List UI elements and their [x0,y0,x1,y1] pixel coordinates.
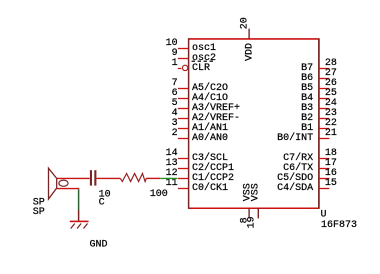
svg-text:21: 21 [325,128,337,139]
svg-text:100: 100 [150,189,168,200]
svg-text:19: 19 [247,216,258,228]
svg-text:VSS: VSS [250,183,261,201]
pin 17 (C6/TX) [283,158,337,174]
pin 24 (B3) [301,98,337,114]
wire resistor right [146,177,160,179]
pin 14 (C3/SCL) [166,148,228,164]
pin 19 (VSS) [247,183,262,228]
pin 22 (B1) [301,118,337,134]
IC U 16F873 body [189,38,319,209]
ground [70,210,89,229]
svg-text:GND: GND [90,240,108,251]
pin 20 (VDD) [239,17,255,61]
svg-text:11: 11 [166,178,178,189]
pin 5 (A3/VREF+) [172,98,240,114]
svg-text:C0/CK1: C0/CK1 [192,182,228,194]
pin 10 (osc1) [166,38,216,54]
pin 13 (C2/CCP1) [166,158,234,174]
pin 9 (osc2) [172,48,216,64]
pin 2 (A0/AN0) [172,128,228,144]
capacitor C 10 [90,170,97,185]
pin 3 (A1/AN1) [172,118,228,134]
pin 23 (B2) [301,108,337,124]
svg-text:C: C [99,197,105,208]
svg-text:B0/INT: B0/INT [277,132,313,144]
svg-text:2: 2 [172,128,178,139]
wire speaker top to capacitor [57,177,90,179]
svg-text:15: 15 [325,178,337,189]
pin 11 (C0/CK1) [166,178,228,194]
pin 28 (B7) [301,58,337,74]
pin 12 (C1/CCP2) [166,168,234,184]
wire capacitor to resistor [96,177,120,179]
pin 4 (A2/VREF-) [172,108,240,124]
svg-text:SP: SP [33,207,45,218]
svg-text:A0/AN0: A0/AN0 [192,132,228,144]
resistor 100 [120,174,146,182]
pin 15 (C4/SDA) [277,178,337,194]
pin 16 (C5/SDO) [277,168,337,184]
pin 26 (B5) [301,78,337,94]
svg-text:U: U [321,209,327,220]
pin 7 (A5/C2O) [172,78,228,94]
svg-text:16F873: 16F873 [321,220,357,231]
pin 8 (VSS) [239,183,253,223]
svg-text:VDD: VDD [244,43,255,61]
pin 6 (A4/C1O) [172,88,228,104]
wire speaker bottom [57,188,80,190]
svg-text:20: 20 [239,17,250,29]
speaker SP [49,168,69,199]
wire green horizontal to pin 12 [160,177,177,179]
wire green vertical [78,189,80,210]
pin 1 (CLR) [172,58,213,74]
pin 25 (B4) [301,88,337,104]
svg-text:1: 1 [172,58,178,69]
svg-text:CLR: CLR [192,63,210,74]
svg-text:C4/SDA: C4/SDA [277,182,313,194]
pin 27 (B6) [301,68,337,84]
pin 18 (C7/RX) [283,148,337,164]
pin 21 (B0/INT) [277,128,337,144]
